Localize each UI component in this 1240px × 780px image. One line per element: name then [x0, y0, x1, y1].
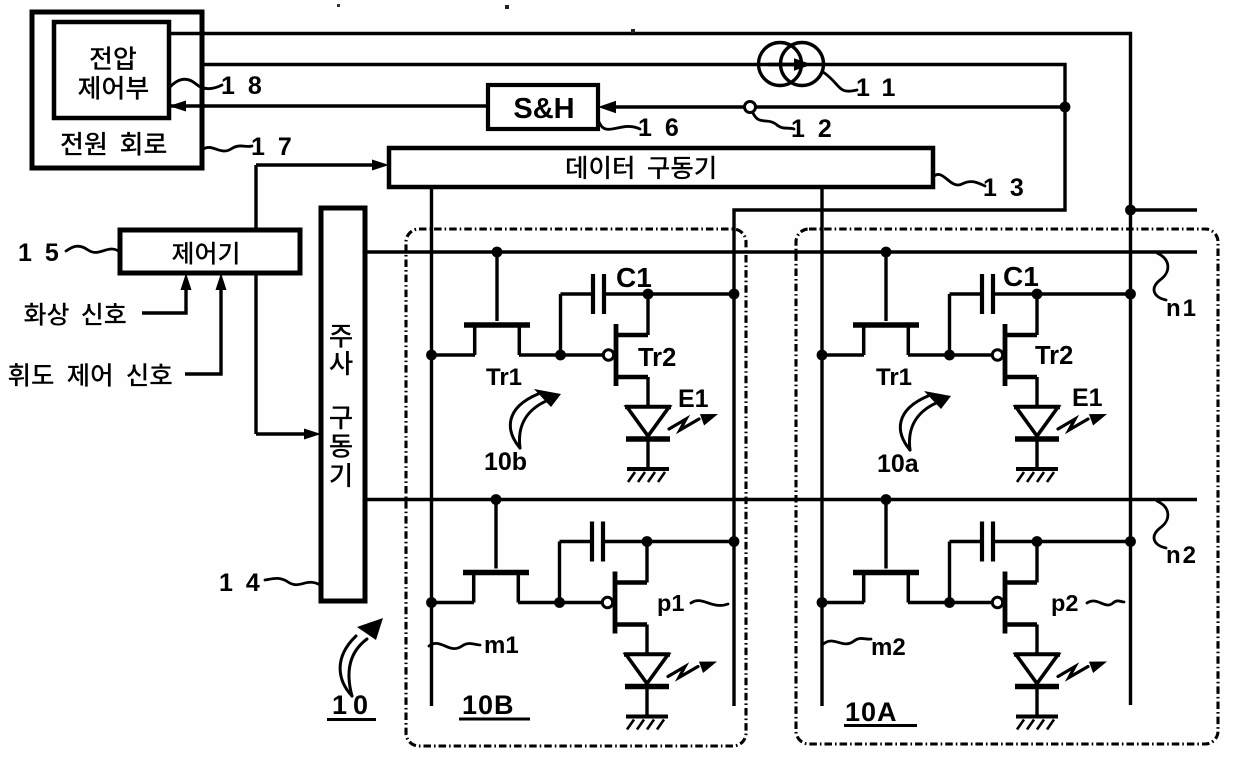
- svg-text:15: 15: [18, 239, 72, 267]
- svg-text:11: 11: [856, 74, 908, 102]
- svg-text:10: 10: [332, 690, 374, 720]
- svg-text:17: 17: [251, 133, 305, 161]
- svg-text:m2: m2: [871, 634, 906, 661]
- svg-text:13: 13: [983, 174, 1037, 202]
- svg-text:16: 16: [638, 114, 692, 142]
- svg-text:C1: C1: [616, 262, 652, 293]
- svg-text:E1: E1: [678, 385, 709, 413]
- svg-text:p1: p1: [657, 590, 684, 616]
- svg-text:n1: n1: [1166, 295, 1198, 322]
- svg-text:10B: 10B: [462, 690, 515, 720]
- svg-text:Tr1: Tr1: [486, 364, 522, 391]
- svg-text:10a: 10a: [877, 450, 920, 478]
- svg-text:E1: E1: [1072, 384, 1103, 412]
- svg-text:10b: 10b: [484, 448, 527, 476]
- svg-text:18: 18: [221, 72, 275, 100]
- svg-text:n2: n2: [1166, 542, 1198, 569]
- svg-text:Tr1: Tr1: [876, 364, 912, 391]
- svg-text:S&H: S&H: [513, 93, 574, 125]
- svg-text:C1: C1: [1003, 261, 1039, 292]
- svg-text:p2: p2: [1051, 590, 1078, 616]
- svg-text:10A: 10A: [845, 697, 898, 727]
- svg-text:Tr2: Tr2: [1035, 342, 1073, 370]
- svg-text:12: 12: [791, 115, 845, 143]
- svg-text:14: 14: [219, 569, 273, 597]
- svg-text:m1: m1: [484, 632, 519, 659]
- svg-text:Tr2: Tr2: [638, 344, 676, 372]
